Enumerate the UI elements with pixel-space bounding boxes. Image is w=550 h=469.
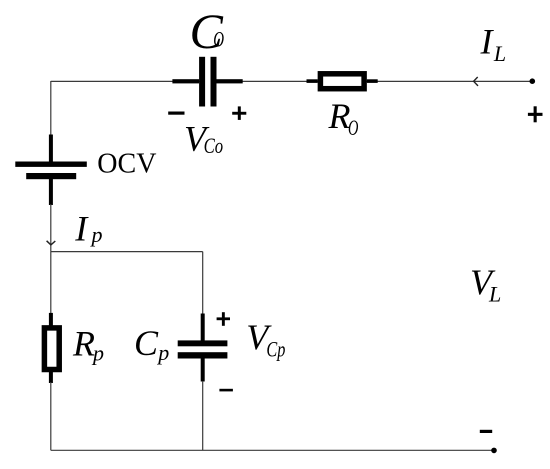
svg-text:C: C: [134, 323, 159, 363]
node: negative terminal dot bottom right: [491, 448, 497, 454]
label C_O for capacitor Co: [190, 3, 225, 59]
polarity minus for V_Cp: [219, 389, 233, 392]
label I_L for load current: [480, 21, 507, 66]
label I_p for parallel branch current: [74, 208, 102, 248]
capacitor Co: [172, 57, 242, 107]
svg-text:L: L: [493, 41, 506, 66]
wire: left branch vertical down to resistor Rp: [50, 252, 52, 316]
polarity plus for V_Co: [232, 106, 246, 120]
polarity plus top right terminal: [528, 106, 543, 122]
label V_Cp: [246, 317, 285, 362]
arrowhead for current I_p pointing down: [47, 241, 56, 245]
svg-text:O: O: [213, 26, 224, 51]
resistor Ro: [307, 74, 378, 89]
label V_Co: [184, 118, 223, 158]
wire: left vertical from battery to junction with arrow: [50, 204, 52, 252]
svg-text:Cp: Cp: [266, 337, 285, 362]
wire: right branch vertical from capacitor Cp to bottom: [202, 381, 204, 450]
label R_O for resistor Ro: [328, 96, 359, 140]
capacitor Cp: [178, 314, 228, 382]
svg-text:p: p: [90, 222, 103, 247]
svg-text:I: I: [480, 21, 495, 61]
polarity plus for V_Cp: [217, 312, 230, 326]
resistor Rp: [44, 313, 59, 383]
label V_L for terminal voltage: [470, 262, 501, 307]
node: positive terminal dot top right: [530, 78, 536, 84]
wire: top horizontal left segment (node to capacitor Co): [51, 80, 200, 82]
wire: right branch vertical from top to capacitor Cp: [202, 252, 204, 316]
svg-text:R: R: [72, 324, 95, 364]
svg-text:I: I: [74, 208, 89, 248]
svg-text:p: p: [91, 341, 104, 366]
wire: left branch vertical from resistor Rp to bottom: [50, 382, 52, 450]
wire: horizontal top of parallel RC branch: [51, 251, 203, 253]
svg-text:O: O: [348, 115, 358, 140]
wire: left vertical from top corner to battery: [50, 81, 52, 140]
wire: top horizontal right segment (Ro to terminal): [366, 80, 533, 82]
battery OCV symbol: [15, 135, 87, 206]
label R_p for resistor Rp: [72, 324, 104, 366]
arrowhead for current I_L pointing left: [474, 77, 478, 86]
label C_p for capacitor Cp: [134, 323, 169, 365]
wire: bottom horizontal to negative terminal: [51, 449, 494, 451]
svg-text:L: L: [488, 282, 501, 307]
polarity minus bottom right terminal: [480, 430, 492, 433]
svg-text:OCV: OCV: [97, 149, 156, 180]
polarity minus for V_Co: [168, 112, 184, 115]
svg-text:Co: Co: [204, 133, 224, 158]
wire: top horizontal middle segment (Co to Ro): [216, 80, 319, 82]
svg-text:p: p: [156, 340, 169, 365]
